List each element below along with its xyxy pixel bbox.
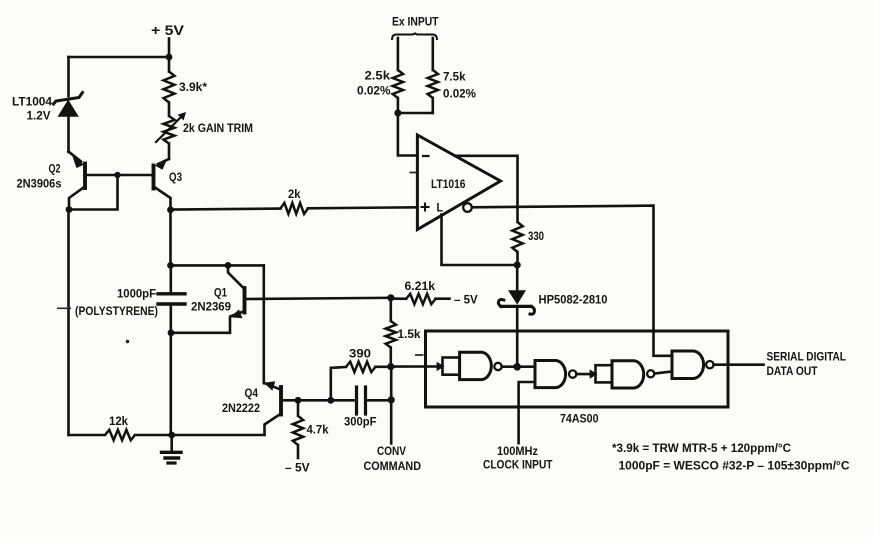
wire clock to gate2 lower input <box>519 382 535 443</box>
svg-text:+ 5V: + 5V <box>151 22 185 38</box>
junction dot 390 left leg <box>327 397 334 404</box>
svg-text:COMMAND: COMMAND <box>364 459 422 473</box>
svg-text:6.21k: 6.21k <box>405 279 436 293</box>
pin minus <box>423 155 429 157</box>
wire bottom rail right <box>135 434 265 437</box>
svg-text:HP5082-2810: HP5082-2810 <box>539 295 608 307</box>
wire to comparator minus input <box>398 113 418 156</box>
nand gate G1 <box>443 352 502 379</box>
svg-text:390: 390 <box>349 347 371 361</box>
nand gate G2 <box>535 361 576 388</box>
svg-text:0.02%: 0.02% <box>357 84 391 98</box>
svg-text:L: L <box>437 201 444 215</box>
junction dot cap top <box>167 262 174 269</box>
resistor R10 2k <box>281 203 309 214</box>
svg-text:0.02%: 0.02% <box>443 87 476 101</box>
svg-text:100MHz: 100MHz <box>497 444 538 458</box>
svg-text:330: 330 <box>528 229 544 243</box>
pin plus <box>422 204 429 211</box>
junction dot wired-AND node <box>513 363 521 371</box>
junction dot 300pF node <box>388 396 395 403</box>
wire latch pin <box>442 215 518 266</box>
resistor R11 330 <box>512 222 522 252</box>
svg-text:DATA OUT: DATA OUT <box>767 364 819 378</box>
wire divider bottom <box>398 112 433 115</box>
arrow gate1 input <box>437 362 445 371</box>
svg-text:CLOCK INPUT: CLOCK INPUT <box>483 458 553 472</box>
wire serial data out <box>714 363 764 366</box>
svg-text:Q4: Q4 <box>245 386 259 400</box>
transistor Q2 2N3906s (PNP) <box>69 152 118 210</box>
transistor Q1 2N2369 (NPN) <box>171 265 245 332</box>
svg-text:1000pF = WESCO #32-P – 105±3: 1000pF = WESCO #32-P – 105±30ppm/°C <box>619 461 850 473</box>
trimpot R2 2k GAIN TRIM <box>156 112 186 144</box>
bracket <box>392 33 437 40</box>
artifact dash left of box <box>415 354 424 356</box>
artifact dash left of comparator <box>410 172 417 174</box>
junction dot +5V node <box>166 54 173 61</box>
transistor Q4 2N2222 (NPN) <box>264 381 298 435</box>
junction dot cap bottom <box>168 329 175 336</box>
wire left rail upper <box>67 57 70 96</box>
resistor R9 7.5k 0.02% <box>428 70 438 98</box>
svg-text:*3.9k = TRW MTR-5 + 120ppm/°C: *3.9k = TRW MTR-5 + 120ppm/°C <box>612 443 791 455</box>
svg-text:2.5k: 2.5k <box>365 69 391 83</box>
arrow gate3 input <box>590 369 598 378</box>
ground symbol <box>162 435 182 463</box>
svg-text:4.7k: 4.7k <box>307 423 329 437</box>
svg-text:2k: 2k <box>288 187 301 201</box>
capacitor C1 1000pF <box>158 265 185 435</box>
wire cap top rail <box>171 264 264 267</box>
svg-text:LT1004: LT1004 <box>12 95 52 109</box>
svg-text:2N3906s: 2N3906s <box>17 177 62 191</box>
wire bottom rail left <box>69 434 106 437</box>
transistor Q3 (PNP) <box>118 144 171 210</box>
junction dot Q3 collector node <box>167 206 174 213</box>
svg-text:CONV: CONV <box>377 444 406 458</box>
zener D1 LT1004 1.2V <box>54 93 83 153</box>
junction dot divider node <box>394 109 401 116</box>
wire comparator output <box>472 206 672 356</box>
nand gate G4 <box>672 351 714 379</box>
wire left rail lower <box>67 210 70 436</box>
svg-text:1.2V: 1.2V <box>27 109 51 123</box>
resistor R6 6.21k <box>391 294 450 304</box>
junction dot Q2/Q3 base tie <box>114 172 120 178</box>
output bubble <box>463 203 472 212</box>
capacitor C2 300pF <box>357 387 392 414</box>
op-amp U1 LT1016 comparator <box>417 135 500 230</box>
resistor R1 3.9k* <box>164 72 175 103</box>
resistor R3 12k <box>105 430 135 440</box>
svg-text:1000pF: 1000pF <box>117 289 156 301</box>
wire Q4 base row <box>298 399 357 402</box>
svg-text:2k GAIN TRIM: 2k GAIN TRIM <box>183 121 253 135</box>
wire Ex input right leg <box>431 38 434 70</box>
junction dot 330/diode node <box>514 261 521 268</box>
svg-text:LT1016: LT1016 <box>431 177 466 191</box>
svg-text:1.5k: 1.5k <box>398 327 421 341</box>
wire plus input (2k from Q3) <box>171 209 281 210</box>
svg-text:SERIAL DIGITAL: SERIAL DIGITAL <box>767 350 847 364</box>
wire gate3 out <box>654 372 672 374</box>
wire gate1 out <box>502 365 535 368</box>
wire vertical to Q4 emitter <box>262 265 265 383</box>
junction dot Q4 base node <box>295 397 302 404</box>
junction dot ground node <box>168 432 175 439</box>
svg-text:Q2: Q2 <box>49 162 61 176</box>
svg-text:3.9k*: 3.9k* <box>179 80 207 94</box>
svg-text:Q3: Q3 <box>169 170 182 184</box>
nand gate G3 <box>596 361 655 388</box>
wire top rail <box>69 56 170 59</box>
svg-text:7.5k: 7.5k <box>443 70 466 84</box>
diode D2 HP5082-2810 (schottky) <box>498 265 534 367</box>
svg-text:2N2369: 2N2369 <box>191 300 231 314</box>
svg-text:300pF: 300pF <box>344 415 377 429</box>
wire gate1 input <box>391 365 438 368</box>
wire +5V stub <box>168 39 171 58</box>
junction dot Q1 collector node <box>225 262 232 269</box>
svg-text:2N2222: 2N2222 <box>222 401 260 415</box>
wire Q3 collector rail down <box>169 210 172 266</box>
resistor R5 390 <box>331 362 391 401</box>
svg-text:– 5V: – 5V <box>454 295 478 307</box>
wire CONV COMMAND vertical <box>390 367 393 444</box>
junction dot 390/1.5k node <box>387 363 394 370</box>
svg-text:Ex INPUT: Ex INPUT <box>392 15 439 29</box>
wire Ex input left leg <box>397 38 400 70</box>
artifact dash <box>57 307 71 309</box>
wire Q output tap to 330 <box>455 156 518 222</box>
svg-text:74AS00: 74AS00 <box>560 412 599 426</box>
wire gate2 out <box>576 373 590 376</box>
IC box 74AS00 <box>426 331 729 407</box>
junction dot Q2 collector <box>66 206 73 213</box>
svg-text:(POLYSTYRENE): (POLYSTYRENE) <box>75 306 158 318</box>
svg-text:Q1: Q1 <box>214 286 227 300</box>
wire Q1 base to 6.21k node <box>245 298 391 299</box>
wire base-collector tie loop <box>69 175 118 210</box>
resistor R7 1.5k <box>386 298 396 367</box>
resistor R8 2.5k 0.02% <box>393 70 403 98</box>
svg-text:12k: 12k <box>109 414 128 428</box>
svg-text:– 5V: – 5V <box>285 461 310 475</box>
artifact dot <box>126 340 129 343</box>
junction dot Q1 base node <box>387 294 394 301</box>
resistor R4 4.7k <box>293 400 303 458</box>
